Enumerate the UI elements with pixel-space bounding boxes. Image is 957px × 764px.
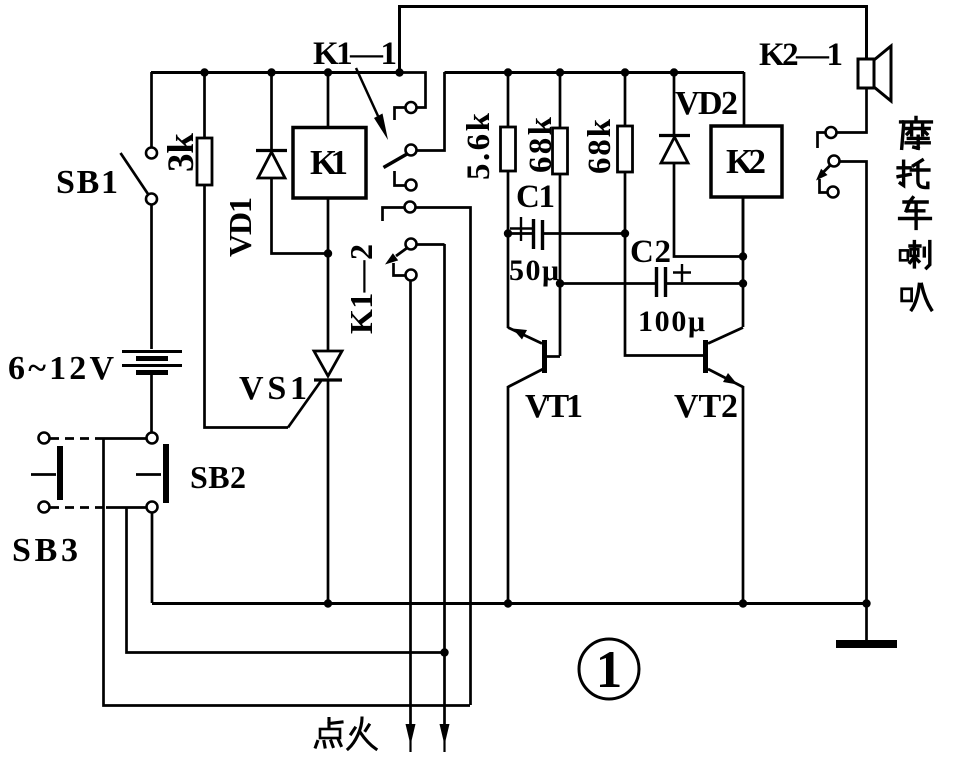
svg-text:VS1: VS1 — [239, 370, 307, 407]
svg-text:SB1: SB1 — [56, 164, 118, 201]
junction VD2/K2 bottom — [739, 252, 747, 260]
wire positive rail right segment — [445, 71, 745, 74]
diode VD2 — [659, 72, 743, 257]
figure number 1 in circle — [579, 639, 639, 699]
svg-text:K1—2: K1—2 — [343, 244, 379, 334]
resistor 68k second — [618, 72, 705, 356]
wire positive rail left segment — [151, 71, 401, 74]
ground — [836, 603, 897, 648]
capacitor C2 — [560, 264, 743, 297]
svg-text:VT2: VT2 — [674, 388, 738, 425]
label char tuo — [898, 160, 929, 188]
junction rail/3k — [200, 68, 208, 76]
svg-text:C1: C1 — [516, 179, 555, 215]
wire SB3 branch to K1-2 top contact — [104, 438, 471, 706]
junction rail/5.6k — [504, 68, 512, 76]
svg-text:1: 1 — [596, 641, 623, 699]
svg-text:SB2: SB2 — [190, 459, 246, 495]
svg-text:50μ: 50μ — [509, 254, 559, 287]
junction C2/VT2 collector — [739, 279, 747, 287]
junction bottom rail/VT1 — [504, 599, 512, 607]
svg-text:68k: 68k — [582, 118, 618, 174]
relay coil K1 — [293, 72, 366, 351]
switch SB1 — [121, 72, 158, 349]
junction bottom rail/VT2 — [739, 599, 747, 607]
svg-text:VD1: VD1 — [222, 197, 258, 257]
label huo (ignition char 2) — [348, 718, 376, 749]
svg-text:K2—1: K2—1 — [759, 37, 843, 73]
junction K1 coil / VD1 — [324, 249, 332, 257]
thyristor VS1 — [288, 351, 342, 603]
junction rail/68k second — [621, 68, 629, 76]
wire ignition line 1 (from K1-2 bottom contact) — [409, 281, 412, 725]
arrow ignition 1 — [406, 724, 416, 752]
relay contact K1-1 — [384, 72, 445, 191]
junction C2/68k first — [556, 279, 564, 287]
label char che — [900, 198, 931, 229]
svg-text:6~12V: 6~12V — [8, 350, 114, 387]
relay contact K1-2 — [383, 202, 471, 706]
arrow ignition 2 — [440, 724, 450, 752]
relay coil K2 — [711, 72, 782, 257]
speaker (motorcycle horn) — [837, 46, 891, 133]
svg-text:C2: C2 — [630, 234, 671, 270]
wire ignition line 2 (from K1-2 middle contact) — [443, 244, 446, 725]
junction C1/5.6k node — [504, 229, 512, 237]
transistor VT2 — [703, 197, 743, 603]
wire top loop from K1-1 node to speaker — [400, 7, 867, 73]
svg-text:SB3: SB3 — [12, 532, 78, 569]
junction ignition line 2 / SB2 branch — [440, 648, 448, 656]
junction rail/VD2 — [670, 68, 678, 76]
svg-text:VT1: VT1 — [525, 388, 583, 425]
resistor 5.6k — [501, 72, 516, 328]
junction rail/68k first — [556, 68, 564, 76]
resistor 68k first — [553, 72, 568, 356]
switch SB3 — [31, 433, 106, 513]
diode VD1 — [256, 72, 326, 254]
junction bottom rail/VS1 — [324, 599, 332, 607]
label dian (ignition char 1) — [316, 719, 343, 748]
svg-text:3k: 3k — [161, 133, 202, 172]
relay contact K2-1 — [816, 127, 867, 603]
svg-text:100μ: 100μ — [638, 305, 705, 338]
svg-text:VD2: VD2 — [675, 85, 738, 122]
junction rail/top loop — [395, 68, 403, 76]
resistor 3k — [197, 72, 288, 428]
svg-text:K1: K1 — [310, 143, 348, 182]
svg-text:5.6k: 5.6k — [461, 112, 497, 180]
battery 6~12V — [122, 352, 182, 433]
junction rail/VD1 — [267, 68, 275, 76]
junction C1/68k second — [621, 229, 629, 237]
svg-text:K2: K2 — [726, 142, 766, 181]
junction rail/K1 — [324, 68, 332, 76]
label motuoche laba (motorcycle horn) char mo — [901, 118, 932, 149]
arrow from K1-1 label to contacts — [356, 68, 388, 140]
transistor VT1 — [508, 328, 560, 604]
label char la — [900, 242, 930, 268]
label char ba — [902, 284, 932, 309]
capacitor C1 — [508, 217, 625, 250]
switch SB2 — [100, 433, 169, 604]
wire SB2 branch to ignition line 2 — [127, 507, 445, 653]
svg-text:K1—1: K1—1 — [313, 36, 397, 72]
wire bottom common rail — [152, 602, 866, 605]
svg-text:68k: 68k — [523, 116, 559, 173]
junction bottom rail/ground — [862, 599, 870, 607]
